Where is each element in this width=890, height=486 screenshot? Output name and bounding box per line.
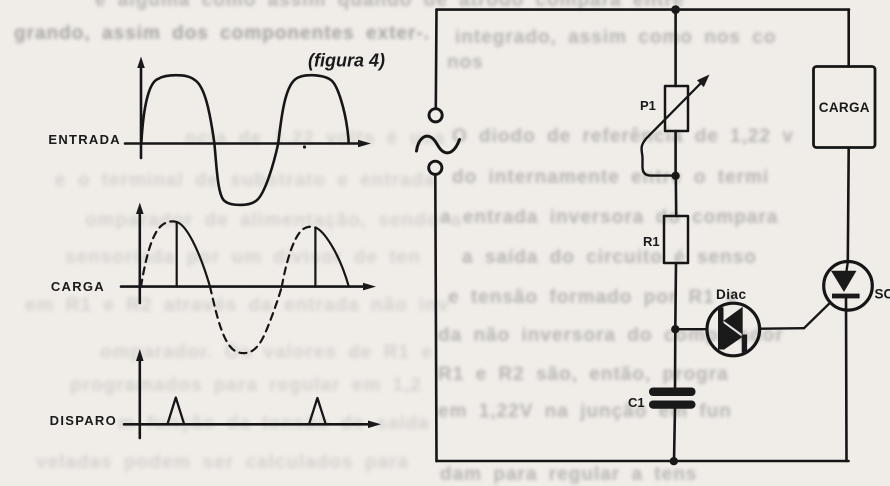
ENTRADA horizontal axis xyxy=(125,140,371,149)
wire: middle branch top xyxy=(674,10,677,86)
potentiometer P1 arrow xyxy=(646,75,710,140)
CARGA horizontal axis xyxy=(121,283,376,291)
CARGA vertical axis xyxy=(136,203,144,304)
DISPARO pulse 1 xyxy=(167,398,184,425)
svg-text:CARGA: CARGA xyxy=(819,100,870,115)
wire: between P1 node and R1 xyxy=(674,176,677,216)
diac upper triangle xyxy=(724,307,743,335)
P1 wiper wire xyxy=(642,140,672,176)
wire: bottom rail xyxy=(437,460,849,463)
svg-text:CARGA: CARGA xyxy=(51,279,105,294)
SCR circle xyxy=(824,262,873,311)
AC source tilde xyxy=(417,136,460,153)
node: diac junction dot xyxy=(671,325,679,333)
svg-text:SCR: SCR xyxy=(875,287,890,302)
DISPARO pulse 2 xyxy=(309,398,326,424)
wire: diac right lead xyxy=(760,327,804,330)
SCR cathode bar xyxy=(832,294,860,299)
capacitor C1 bottom plate xyxy=(649,401,696,409)
wire: left rail lower xyxy=(435,175,436,461)
diac circle xyxy=(707,303,760,356)
CARGA dashed sine (non-conducting) xyxy=(141,221,315,353)
wire: SCR cathode to bottom rail xyxy=(845,298,848,461)
wire: SCR gate diagonal xyxy=(804,303,830,328)
svg-text:P1: P1 xyxy=(640,98,656,113)
svg-text:R1: R1 xyxy=(643,234,660,249)
CARGA firing line 1 xyxy=(176,222,178,287)
resistor R1 body xyxy=(664,216,688,263)
node: top junction dot xyxy=(671,5,680,14)
SCR triangle xyxy=(831,271,857,292)
wire: diac node to C1 xyxy=(674,329,677,387)
AC source terminal circle bottom xyxy=(429,161,442,174)
DISPARO horizontal axis xyxy=(124,421,381,429)
wire: R1 bottom lead xyxy=(674,263,677,329)
ENTRADA sine wave xyxy=(141,75,348,205)
CARGA conduction arc 1 xyxy=(177,222,210,287)
node: P1 wiper junction dot xyxy=(671,172,679,180)
wire: C1 to bottom rail xyxy=(674,409,675,462)
wire: right rail top (to CARGA) xyxy=(847,10,850,67)
diac right bar xyxy=(742,335,747,353)
potentiometer P1 body xyxy=(665,86,688,131)
svg-text:DISPARO: DISPARO xyxy=(50,413,117,428)
wire: P1 bottom lead xyxy=(674,131,677,176)
wire: diac left lead xyxy=(675,328,707,330)
svg-text:Diac: Diac xyxy=(716,287,747,302)
CARGA conduction arc 2 xyxy=(315,228,348,287)
svg-text:C1: C1 xyxy=(628,395,645,410)
node: bottom junction dot xyxy=(670,457,678,465)
svg-text:ENTRADA: ENTRADA xyxy=(48,132,121,147)
CARGA firing line 2 xyxy=(314,228,316,287)
DISPARO vertical axis xyxy=(136,349,144,438)
AC source terminal circle top xyxy=(429,109,442,122)
capacitor C1 top plate xyxy=(649,388,696,397)
diac left bar xyxy=(718,308,724,350)
svg-text:(figura 4): (figura 4) xyxy=(308,51,385,71)
SCR anode wire inside circle xyxy=(847,262,848,271)
ENTRADA vertical axis xyxy=(137,57,145,159)
wire: top rail xyxy=(437,8,850,11)
wire: CARGA to SCR xyxy=(846,148,850,262)
CARGA load box xyxy=(814,67,876,148)
diac lower triangle xyxy=(724,323,743,350)
wire: left rail upper xyxy=(434,10,437,109)
